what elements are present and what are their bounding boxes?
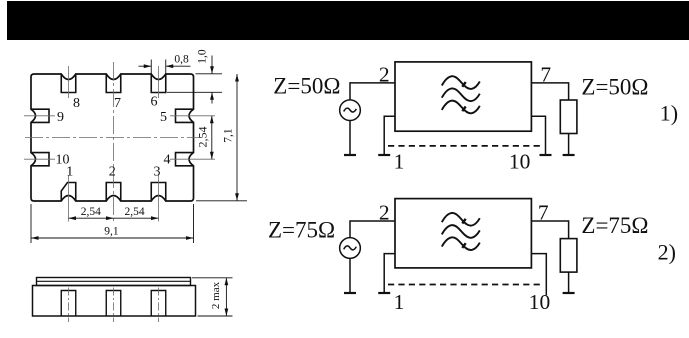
circuit 1: filter symbol wave 1 (with reject slash) — [442, 76, 480, 89]
circuit 1: load resistor R1 — [560, 100, 577, 134]
circuit 1: pin 10 ground — [540, 154, 552, 156]
circuit 2: resistor ground — [563, 292, 575, 294]
side view pad 3 centerline — [158, 288, 160, 323]
pin 5 centerline — [170, 115, 215, 117]
circuit 1: ground bus dashed line — [388, 145, 543, 147]
circuit 2: ground bus dashed line — [388, 284, 543, 286]
circuit 1: AC source generator G1 — [340, 100, 361, 121]
svg-text:5: 5 — [160, 110, 167, 125]
pin 4 pad (right edge) — [176, 153, 194, 166]
dimension 2,54 right line and arrows — [211, 116, 213, 159]
circuit 1: wire resistor to ground — [568, 134, 570, 156]
circuit 1: filter symbol wave 2 — [442, 88, 480, 101]
dimension 9,1 extension lines — [30, 204, 32, 243]
pin 8 centerline — [68, 66, 70, 98]
dimension 9,1 line and arrows — [31, 237, 194, 239]
svg-text:2,54: 2,54 — [81, 206, 101, 218]
svg-text:2,54: 2,54 — [124, 206, 144, 218]
package horizontal centerline — [25, 137, 201, 139]
circuit 2: filter symbol wave 1 (with reject slash) — [442, 213, 480, 226]
circuit 1: filter symbol wave 3 (with reject slash) — [442, 101, 480, 114]
dimension 1,0 line and arrows — [211, 56, 213, 74]
circuit 1: pin 1 ground — [378, 154, 390, 156]
svg-text:1: 1 — [66, 165, 73, 180]
svg-text:2: 2 — [109, 165, 116, 180]
svg-text:8: 8 — [73, 96, 80, 111]
svg-text:2: 2 — [379, 201, 390, 225]
dimension 0,8 extension lines — [150, 60, 152, 74]
svg-text:2 max: 2 max — [210, 281, 222, 309]
dimension 0,8 line and arrows — [139, 65, 152, 67]
svg-text:1: 1 — [394, 149, 405, 173]
svg-text:2): 2) — [658, 240, 676, 265]
dimension 1,0 extension lines — [196, 73, 223, 75]
svg-text:1,0: 1,0 — [197, 49, 209, 64]
side view pad 1 — [61, 291, 76, 317]
svg-text:10: 10 — [509, 149, 531, 173]
svg-text:9,1: 9,1 — [104, 225, 119, 237]
side view lid seam line — [37, 280, 191, 282]
svg-text:6: 6 — [151, 95, 158, 110]
circuit 2: filter network U2 box — [395, 199, 531, 268]
circuit 2: AC source generator G2 — [340, 238, 361, 259]
circuit 1: wire source to pin 2 — [350, 83, 395, 100]
pin 10 centerline — [24, 158, 55, 160]
pin 3 pad (bottom edge) — [151, 183, 166, 202]
svg-text:0,8: 0,8 — [174, 53, 189, 65]
side view pad 2 — [106, 291, 121, 317]
svg-text:4: 4 — [164, 153, 171, 168]
dimension 2 max extension lines — [192, 277, 233, 279]
svg-text:Z=75Ω: Z=75Ω — [581, 213, 648, 238]
svg-text:1): 1) — [660, 101, 678, 126]
circuit 1: wire pin 7 to load resistor — [531, 83, 568, 100]
pin 2 pad (bottom edge) — [106, 183, 121, 202]
pin 7 pad (top edge) — [106, 74, 121, 93]
circuit 2: wire resistor to ground — [568, 272, 570, 293]
svg-text:1: 1 — [394, 290, 405, 314]
side view pad 2 centerline — [113, 288, 115, 323]
side view lid — [37, 278, 191, 286]
side view pad 1 centerline — [68, 288, 70, 323]
pin 5 pad (right edge) — [176, 109, 194, 122]
pin 6 pad (top edge) — [151, 74, 166, 93]
svg-text:2,54: 2,54 — [196, 127, 210, 148]
pin 9 centerline — [24, 115, 55, 117]
side view pad 3 — [151, 291, 166, 317]
svg-text:7,1: 7,1 — [223, 128, 235, 143]
svg-text:10: 10 — [529, 290, 551, 314]
circuit 2: wire source to ground — [349, 258, 351, 293]
circuit 1: filter network U1 box — [395, 62, 531, 131]
circuit 1: resistor ground — [563, 154, 575, 156]
svg-text:7: 7 — [114, 96, 121, 111]
dimension 7,1 bottom extension line — [196, 200, 247, 202]
circuit 2: source ground — [344, 292, 356, 294]
dimension 2,54 bottom-left line and arrows — [69, 217, 114, 219]
circuit 2: pin 1 ground — [378, 292, 390, 294]
circuit 2: wire pin 1 to ground — [384, 254, 395, 293]
circuit 2: wire source to pin 2 — [350, 221, 395, 238]
pin 1 pad (bottom edge, chamfered corner) — [61, 183, 76, 202]
svg-text:Z=75Ω: Z=75Ω — [268, 218, 335, 243]
circuit 2: filter symbol wave 3 (with reject slash) — [442, 237, 480, 250]
pin 8 pad (top edge) — [61, 74, 76, 93]
circuit 1: source ground — [344, 154, 356, 156]
circuit 1: wire pin 1 to ground — [384, 116, 395, 155]
pin 3 centerline — [158, 175, 160, 222]
side view body — [33, 286, 196, 317]
circuit 2: load resistor R2 — [560, 239, 577, 273]
svg-text:9: 9 — [57, 110, 64, 125]
dimension 7,1 line and arrows — [236, 74, 238, 201]
pin 1 centerline — [68, 175, 70, 222]
pin 4 centerline — [170, 158, 215, 160]
circuit 1: wire source to ground — [349, 121, 351, 155]
svg-text:Z=50Ω: Z=50Ω — [581, 74, 648, 99]
svg-text:3: 3 — [154, 165, 161, 180]
svg-text:Z=50Ω: Z=50Ω — [273, 74, 340, 99]
circuit 2: wire pin 7 to load resistor — [531, 221, 568, 239]
circuit 2: filter symbol wave 2 — [442, 225, 480, 238]
dimension 2 max line and arrows — [225, 278, 227, 316]
filter package body outline (top view) — [31, 74, 194, 201]
dimension 2,54 bottom-right line and arrows — [114, 217, 159, 219]
svg-text:2: 2 — [379, 63, 390, 87]
circuit 1: wire pin 10 to ground — [531, 116, 545, 155]
header black bar — [7, 1, 689, 40]
circuit 2: wire pin 10 to ground — [531, 254, 546, 296]
package vertical centerline — [113, 62, 115, 222]
pin 9 pad (left edge) — [31, 109, 49, 122]
pin 6 centerline — [158, 66, 160, 98]
pin 10 pad (left edge) — [31, 153, 49, 166]
